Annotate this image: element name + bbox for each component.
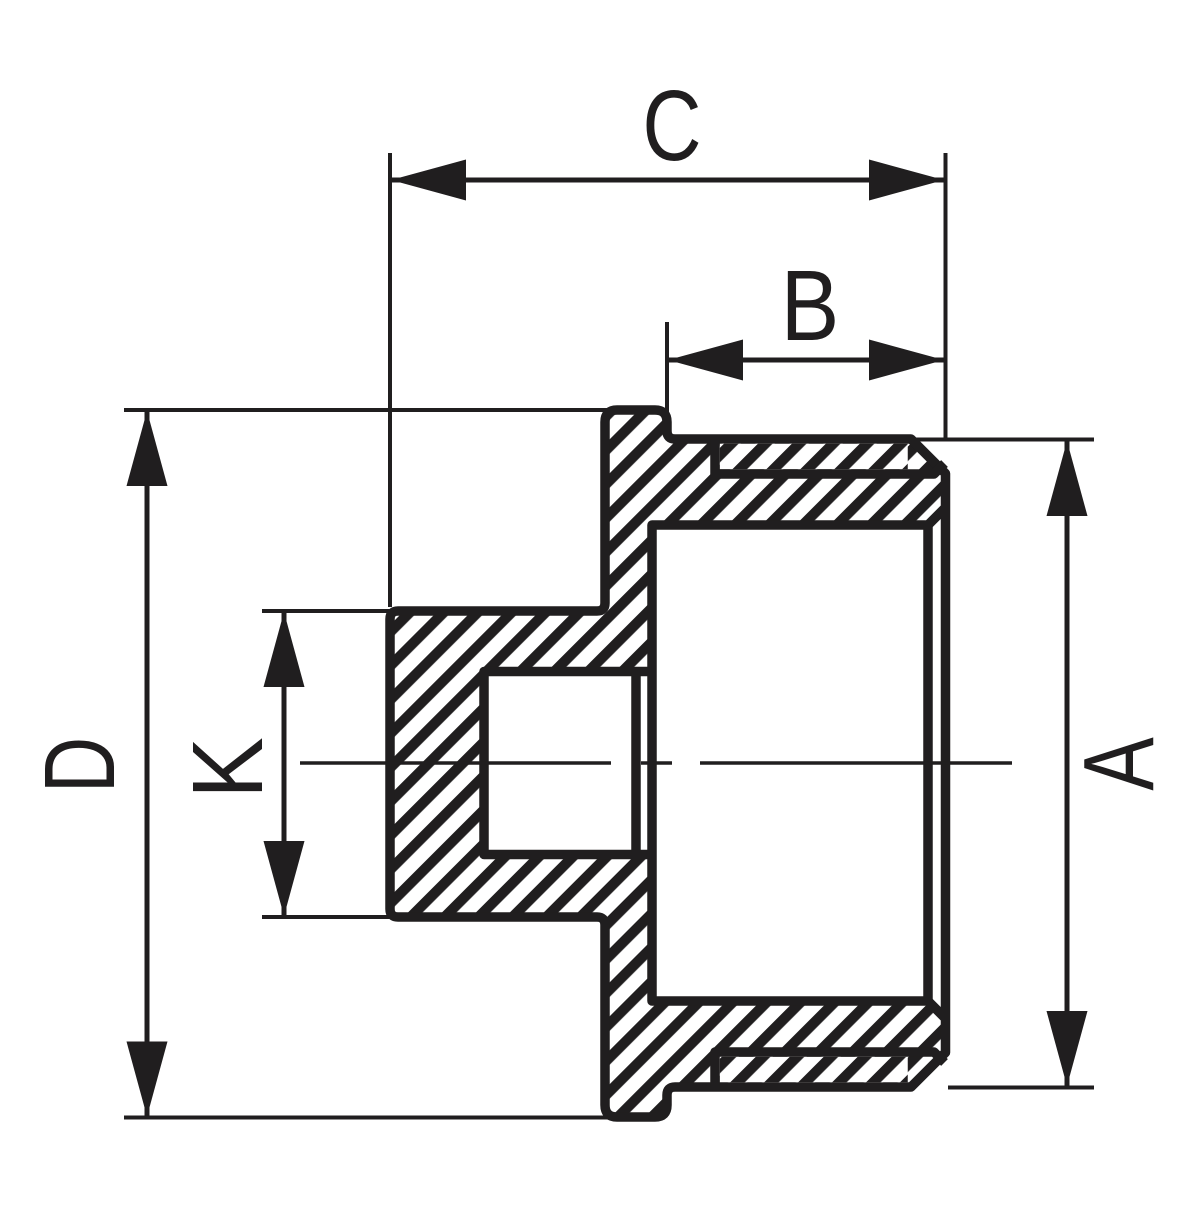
arrowhead C right	[869, 160, 944, 201]
extension line D top	[124, 408, 610, 412]
thread root line bottom	[715, 1052, 945, 1087]
fitting body section outline with hatching (holes: small bore, large threaded cavity)	[390, 410, 946, 1117]
arrowhead B right	[869, 340, 944, 381]
arrowhead D top	[127, 411, 168, 486]
arrowhead A bottom	[1047, 1011, 1088, 1086]
arrowhead K bottom	[264, 841, 305, 916]
dimension line C	[391, 178, 944, 183]
dimension line D	[145, 411, 150, 1117]
extension line C left	[388, 153, 392, 607]
extension line K top	[262, 609, 392, 613]
dimension line B	[668, 358, 944, 363]
svg-text:D: D	[25, 737, 137, 793]
dimension line A	[1065, 441, 1070, 1086]
small bore inner wall edge	[631, 672, 641, 855]
dimension line K	[282, 612, 287, 916]
svg-text:K: K	[172, 737, 283, 798]
svg-text:B: B	[781, 250, 840, 361]
centerline dash left	[300, 761, 611, 765]
arrowhead K top	[264, 612, 305, 687]
arrowhead A top	[1047, 441, 1088, 516]
extension line C/B right	[944, 153, 948, 441]
svg-text:A: A	[1064, 737, 1176, 791]
extension line A top	[913, 438, 1094, 442]
thread root line top	[715, 439, 945, 474]
extension line A bottom	[948, 1086, 1094, 1090]
centerline dash middle	[641, 761, 672, 765]
arrowhead D bottom	[127, 1042, 168, 1117]
extension line D bottom	[124, 1116, 610, 1120]
arrowhead B left	[668, 340, 743, 381]
svg-text:C: C	[642, 70, 701, 182]
bottom thread band hatch (phase shifted)	[720, 1057, 908, 1083]
arrowhead C left	[391, 160, 466, 201]
centerline dash right	[700, 761, 1012, 765]
extension line B left	[665, 322, 669, 412]
extension line K bottom	[262, 915, 392, 919]
top thread band hatch (phase shifted)	[720, 444, 908, 470]
cavity opening edge	[923, 525, 933, 1001]
